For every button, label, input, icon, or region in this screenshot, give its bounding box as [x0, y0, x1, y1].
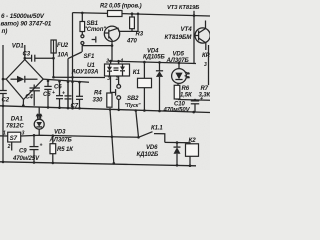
- wire left AC stub: [2, 45, 4, 90]
- resistor R6: [177, 83, 179, 85]
- svg-text:330: 330: [93, 98, 103, 104]
- svg-text:вато) 90 3747-01: вато) 90 3747-01: [1, 21, 52, 28]
- pushbutton SB2: [117, 85, 121, 89]
- transistor VT4: [193, 11, 195, 64]
- wire mid horizontal to U1: [54, 76, 106, 78]
- svg-text:К1: К1: [133, 69, 141, 76]
- capacitor C10: [194, 99, 196, 102]
- svg-text:3: 3: [107, 76, 110, 82]
- pin 3: [110, 76, 112, 93]
- scan noise texture: [0, 0, 210, 170]
- svg-text:C5: C5: [43, 92, 51, 98]
- svg-text:C2: C2: [2, 98, 10, 104]
- svg-text:+: +: [200, 96, 203, 102]
- wire mid vertical to bottom bus: [110, 109, 114, 162]
- svg-text:C3: C3: [23, 52, 31, 58]
- wire base drop: [137, 14, 139, 32]
- wire mid rail: [109, 61, 197, 64]
- capacitor C2: [3, 78, 6, 80]
- svg-text:R6: R6: [182, 86, 190, 92]
- fuse FU2: [51, 40, 56, 53]
- svg-text:АЛ307Б: АЛ307Б: [49, 138, 73, 144]
- svg-text:R7: R7: [201, 86, 209, 92]
- svg-text:2: 2: [7, 144, 11, 150]
- resistor R4: [107, 93, 112, 107]
- wire SB2 node to K1.1 pivot: [136, 111, 139, 138]
- svg-text:КД105Б: КД105Б: [143, 55, 166, 61]
- svg-text:S7: S7: [10, 135, 18, 142]
- svg-text:"Пуск": "Пуск": [125, 103, 142, 109]
- wire VT2 emitter down: [111, 42, 113, 62]
- wire bottom bus: [0, 162, 196, 166]
- transistor VT2: [104, 26, 119, 41]
- capacitor C4: [33, 85, 35, 89]
- svg-text:VD6: VD6: [146, 145, 158, 151]
- svg-text:К2: К2: [189, 137, 197, 144]
- capacitor C3: [25, 57, 32, 59]
- svg-text:470м/25V: 470м/25V: [12, 156, 40, 162]
- wire R6 bottom rail: [178, 99, 210, 102]
- svg-text:АОУ103А: АОУ103А: [71, 68, 99, 75]
- svg-text:FU2: FU2: [57, 43, 69, 49]
- capacitor C5: [47, 81, 49, 87]
- svg-text:7812С: 7812С: [6, 123, 24, 130]
- svg-text:R3: R3: [136, 32, 144, 38]
- LED VD3: [38, 107, 40, 119]
- capacitor C7: [67, 82, 69, 96]
- svg-text:C9: C9: [19, 149, 27, 155]
- svg-text:VD5: VD5: [173, 52, 185, 58]
- resistor R2: [108, 11, 123, 17]
- svg-text:R2 0,05 (пров.): R2 0,05 (пров.): [100, 4, 142, 10]
- svg-text:1: 1: [116, 76, 119, 82]
- svg-text:КД102Б: КД102Б: [137, 152, 160, 158]
- svg-text:C6: C6: [54, 85, 62, 91]
- node junction on top rail: [81, 12, 84, 15]
- node junction base drop: [137, 13, 140, 16]
- wire main bus: [0, 106, 210, 113]
- svg-text:+: +: [52, 90, 55, 96]
- svg-text:+: +: [62, 91, 65, 97]
- svg-text:КР1: КР1: [202, 53, 210, 59]
- node junction R3 top: [131, 12, 134, 15]
- junction on left vertical at mid rail: [71, 80, 74, 83]
- pin 2: [110, 61, 112, 64]
- svg-text:SF1: SF1: [84, 54, 95, 60]
- svg-text:АЛ307Б: АЛ307Б: [166, 58, 190, 64]
- resistor R3: [131, 14, 133, 17]
- pushbutton SB1: [81, 13, 83, 22]
- capacitor C6: [59, 81, 61, 95]
- diode VD6: [176, 143, 178, 148]
- wire top rail: [73, 12, 108, 15]
- wire bridge right rail: [43, 79, 89, 82]
- switch SF1: [81, 46, 83, 52]
- svg-text:SB2: SB2: [127, 96, 139, 102]
- svg-text:КТ819БМ: КТ819БМ: [165, 34, 193, 41]
- svg-text:"Стоп": "Стоп": [84, 27, 106, 33]
- wire bottom control line: [0, 135, 8, 137]
- pin 1: [118, 76, 120, 85]
- svg-text:10А: 10А: [58, 53, 69, 59]
- resistor R5: [52, 136, 54, 144]
- svg-text:VD1: VD1: [12, 43, 24, 50]
- svg-text:К1.1: К1.1: [151, 126, 163, 132]
- svg-text:VT4: VT4: [181, 26, 193, 33]
- svg-text:VT3 КТ819Б: VT3 КТ819Б: [167, 5, 199, 11]
- svg-text:VD3: VD3: [54, 130, 66, 136]
- wire VT2 collector to R3: [119, 30, 138, 32]
- svg-text:+: +: [40, 143, 43, 149]
- optocoupler U1: [105, 64, 130, 76]
- wire bridge top stub: [24, 45, 26, 60]
- svg-text:3: 3: [204, 62, 207, 68]
- svg-text:1,5К: 1,5К: [180, 93, 193, 99]
- svg-text:R5 1К: R5 1К: [57, 147, 74, 153]
- svg-text:п): п): [2, 28, 8, 35]
- svg-text:6 - 15000м/50V: 6 - 15000м/50V: [1, 13, 45, 20]
- wire SB1 to emitter: [82, 45, 112, 46]
- svg-text:R4: R4: [94, 90, 102, 96]
- svg-text:470: 470: [126, 39, 137, 45]
- pin 4: [118, 61, 120, 64]
- svg-text:C4: C4: [25, 94, 33, 100]
- wire to relay K2: [165, 142, 190, 143]
- node junction VT4 drop: [193, 14, 196, 17]
- capacitor C9: [33, 135, 35, 146]
- wire left long vertical: [72, 13, 74, 108]
